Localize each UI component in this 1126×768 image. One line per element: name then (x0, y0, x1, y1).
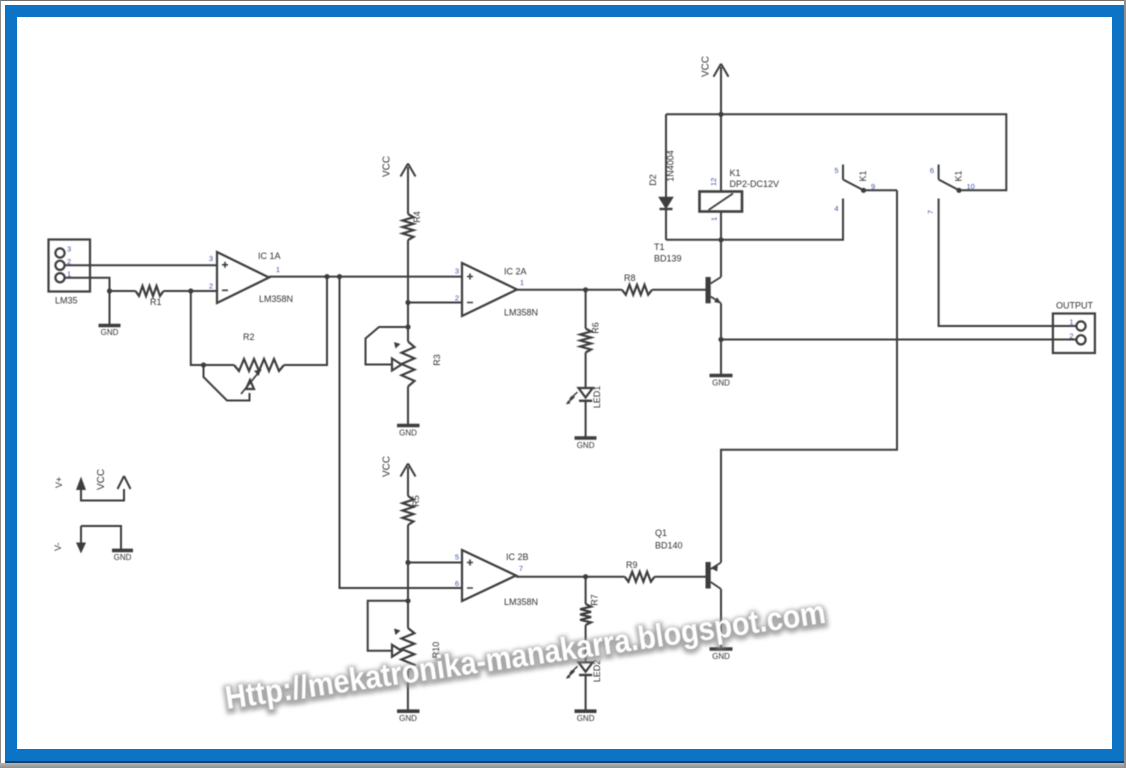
svg-text:LM35: LM35 (55, 296, 78, 306)
navy inner shadow bottom (5, 761, 1124, 763)
svg-text:3: 3 (455, 267, 459, 276)
svg-text:9: 9 (871, 182, 875, 191)
ground GND (below R10) (397, 711, 420, 723)
wire: R2 right leg up to output (284, 277, 327, 365)
node: junction LM35/R1/GND (107, 288, 112, 293)
node: R3 top/wiper junction (405, 324, 410, 329)
svg-text:7: 7 (519, 564, 523, 573)
svg-text:GND: GND (399, 429, 417, 438)
wire: flyback rail D2 to switch K1-A lower contact (666, 199, 843, 240)
ground GND (below LED2) (575, 711, 597, 723)
node: R10 top/wiper junction (405, 598, 410, 603)
svg-text:4: 4 (834, 204, 838, 213)
svg-text:T1: T1 (654, 242, 665, 252)
svg-text:BD139: BD139 (654, 254, 682, 264)
svg-text:2: 2 (1069, 332, 1073, 341)
svg-text:LED1: LED1 (592, 386, 602, 409)
wire: IC2B output to Q1 base (516, 576, 706, 578)
svg-text:VCC: VCC (701, 56, 712, 77)
gray outer band bottom (0, 763, 1126, 768)
wire: feedback left leg down from R1 junction (191, 291, 234, 365)
wire: tap to IC2B + input (408, 562, 462, 564)
svg-text:10: 10 (967, 182, 975, 191)
svg-text:Http://mekatronika-manakarra.b: Http://mekatronika-manakarra.blogspot.co… (223, 594, 828, 716)
node: R2 wiper tap junction (201, 362, 206, 367)
wire: R4 down to R3 (407, 240, 409, 342)
power VCC (above R5) (382, 456, 416, 496)
svg-text:OUTPUT: OUTPUT (1056, 301, 1094, 311)
trimmer R2 (feedback) (204, 332, 285, 401)
svg-text:K1: K1 (858, 170, 868, 181)
svg-text:2: 2 (455, 294, 459, 303)
svg-text:12: 12 (709, 178, 718, 186)
wire: K1-B lower contact to OUTPUT pin1 (939, 199, 1076, 327)
wire: LM35 pin2 to IC1A noninverting input (65, 264, 218, 266)
svg-text:2: 2 (67, 257, 71, 266)
node: IC2B noninverting tap (405, 560, 410, 565)
wire: LED1 to ground (585, 401, 587, 438)
node: output/IC2B signal junction (337, 274, 342, 279)
svg-text:1: 1 (67, 270, 71, 279)
wire: LM35 pin1 down to ground node (65, 278, 110, 291)
node: IC2A inverting tap (405, 300, 410, 305)
blue border band bottom (5, 749, 1124, 761)
wire: T1 collector up to relay node (720, 240, 722, 277)
op-amp IC2A LM358N (455, 263, 538, 318)
resistor R1 (136, 286, 164, 307)
relay K1 coil DP2-DC12V (700, 168, 780, 221)
wire: top rail (VCC to D2 and switch K1-B) (666, 114, 1006, 190)
svg-text:6: 6 (930, 166, 934, 175)
svg-text:R1: R1 (150, 297, 162, 307)
svg-text:2: 2 (209, 282, 213, 291)
connector OUTPUT (2-pin) (1053, 301, 1095, 354)
wire: R6 to LED1 (585, 353, 587, 389)
wire: tap to IC2A - input (408, 302, 462, 304)
svg-text:BD140: BD140 (655, 541, 683, 551)
switch contact K1-B (926, 165, 975, 215)
svg-text:V+: V+ (54, 477, 64, 488)
svg-text:1: 1 (710, 217, 719, 221)
node: VCC rail junction (718, 112, 723, 117)
svg-text:1: 1 (520, 278, 524, 287)
transistor Q1 BD140 (PNP) (655, 528, 721, 589)
svg-text:IC 1A: IC 1A (258, 251, 281, 261)
op-amp IC2B LM358N (455, 550, 538, 607)
resistor R9 (625, 560, 655, 582)
LED LED2 (567, 660, 603, 683)
wire: T1 emitter node to OUTPUT pin2 (721, 339, 1076, 341)
svg-text:1: 1 (1069, 318, 1073, 327)
svg-text:5: 5 (455, 553, 459, 562)
svg-text:DP2-DC12V: DP2-DC12V (730, 179, 780, 189)
switch contact K1-A (834, 165, 897, 214)
blue border band left (5, 5, 17, 762)
resistor R8 (622, 273, 652, 295)
svg-text:LM358N: LM358N (504, 597, 538, 607)
resistor R7 (580, 594, 599, 625)
ground GND (below LED1) (575, 438, 597, 450)
svg-text:R6: R6 (591, 322, 601, 334)
watermark blog url (223, 594, 828, 718)
svg-text:7: 7 (926, 210, 935, 214)
trimmer R10 (368, 601, 441, 670)
LED LED1 (567, 386, 603, 409)
svg-text:GND: GND (101, 328, 119, 337)
wire: IC2A output to T1 base (517, 289, 706, 291)
svg-text:R5: R5 (411, 495, 421, 507)
svg-text:GND: GND (712, 652, 730, 661)
ground GND (below T1) (710, 376, 733, 388)
node: junction R1/IC1A-/R2 (188, 288, 193, 293)
node: emitter/output junction (718, 337, 723, 342)
svg-text:VCC: VCC (96, 469, 107, 490)
svg-text:Q1: Q1 (655, 528, 667, 538)
svg-text:R2: R2 (243, 332, 255, 342)
node: output/R2 feedback junction (324, 274, 329, 279)
wire: signal drop to IC2B inverting input (340, 277, 463, 588)
svg-text:K1: K1 (954, 170, 964, 181)
svg-text:GND: GND (577, 714, 595, 723)
outer gray hairline left (0, 0, 1, 763)
wire: R7 to LED2 (585, 625, 587, 662)
ground GND (below R3) (397, 426, 420, 438)
wire: LED2 to ground (585, 675, 587, 711)
node: relay bottom junction (718, 237, 723, 242)
svg-text:R8: R8 (624, 273, 636, 283)
svg-text:GND: GND (577, 441, 595, 450)
node: IC2A output / R6 junction (583, 287, 588, 292)
svg-text:3: 3 (209, 254, 213, 263)
power legend: V+ tied to VCC (54, 469, 131, 501)
ground GND (below Q1) (710, 649, 733, 661)
ground GND (below LM35) (99, 291, 121, 337)
svg-text:GND: GND (399, 714, 417, 723)
wire: Q1 emitter down to ground (720, 589, 722, 649)
outer gray hairline top (0, 0, 1126, 1)
wire: T1 emitter down to ground (720, 303, 722, 375)
trimmer R3 (366, 327, 443, 387)
op-amp IC1A LM358N (209, 251, 293, 304)
svg-text:R7: R7 (590, 594, 600, 606)
wire: junction down to R6 (585, 290, 587, 329)
wire: junction down to R7 (585, 577, 587, 604)
wire: R3 to ground (407, 387, 409, 426)
resistor R5 (403, 495, 422, 525)
wire: junction to R1 (110, 290, 136, 292)
wire: relay coil bottom to flyback rail (720, 212, 722, 240)
svg-text:VCC: VCC (382, 456, 393, 477)
blue border band right (1112, 5, 1124, 762)
svg-text:LM358N: LM358N (259, 294, 293, 304)
connector J1 LM35 (3-pin) (49, 240, 91, 306)
svg-text:R9: R9 (626, 560, 638, 570)
svg-text:D2: D2 (648, 174, 658, 186)
svg-text:IC 2A: IC 2A (504, 267, 527, 277)
svg-text:1N4004: 1N4004 (666, 150, 676, 182)
svg-text:VCC: VCC (382, 156, 393, 177)
svg-text:6: 6 (455, 579, 459, 588)
svg-text:IC 2B: IC 2B (506, 552, 529, 562)
resistor R6 (580, 322, 600, 352)
power VCC (top, relay supply) (701, 56, 729, 192)
gray outer band right (1124, 0, 1126, 768)
svg-text:5: 5 (834, 166, 838, 175)
svg-text:1: 1 (276, 265, 280, 274)
svg-text:R3: R3 (432, 354, 442, 366)
transistor T1 BD139 (NPN) (654, 242, 721, 303)
power legend: V- tied to GND (53, 526, 133, 562)
wire: R1 to IC1A inverting input (164, 290, 218, 292)
svg-text:LM358N: LM358N (504, 308, 538, 318)
power VCC (above R4) (382, 156, 416, 214)
blue border band top (5, 5, 1124, 17)
node: IC2B output / R7 junction (583, 574, 588, 579)
diode D2 1N4004 (648, 114, 676, 240)
resistor R4 (403, 211, 423, 240)
svg-text:R4: R4 (412, 211, 422, 223)
wire: IC1A output rail to IC2A + input (269, 276, 462, 278)
svg-text:V-: V- (53, 542, 63, 551)
wire: R10 to ground (407, 670, 409, 711)
svg-text:K1: K1 (730, 168, 741, 178)
wire: R5 down to R10 (407, 525, 409, 628)
svg-text:GND: GND (712, 379, 730, 388)
svg-text:3: 3 (67, 245, 71, 254)
wire: K1-A common down and across to Q1 collector (721, 190, 897, 562)
svg-text:GND: GND (114, 553, 132, 562)
